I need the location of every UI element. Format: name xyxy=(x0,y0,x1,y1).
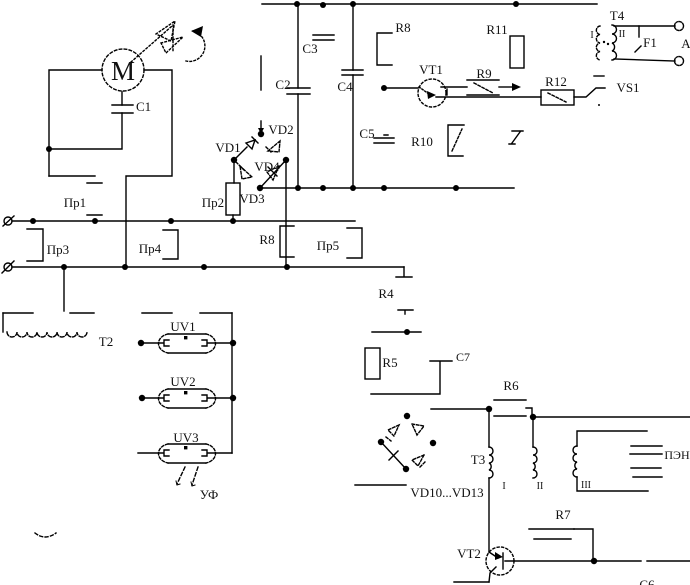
svg-text:R6: R6 xyxy=(503,378,519,393)
svg-text:I: I xyxy=(590,30,593,41)
wire stub left of bridge xyxy=(355,484,406,486)
capacitor C4 xyxy=(337,70,363,94)
svg-text:II: II xyxy=(619,29,626,40)
svg-text:T4: T4 xyxy=(610,8,625,23)
svg-text:C1: C1 xyxy=(136,99,151,114)
svg-text:UV3: UV3 xyxy=(173,430,198,445)
node bus L2 d xyxy=(284,264,290,270)
wire VT2 output xyxy=(505,560,690,562)
svg-text:ПЭН: ПЭН xyxy=(664,448,690,462)
node VT1 base wire xyxy=(381,85,387,91)
diode VD1 xyxy=(215,137,258,160)
wire bus L1 xyxy=(12,220,355,222)
wire C2 branch xyxy=(297,4,299,188)
node mid rail d xyxy=(381,185,387,191)
wire C4 branch xyxy=(352,4,354,188)
diode VD3 sketch xyxy=(236,162,252,179)
svg-text:R5: R5 xyxy=(382,355,397,370)
transistor VT2 xyxy=(457,546,514,582)
wire C1 branch xyxy=(49,92,122,149)
node bus L1 c xyxy=(168,218,174,224)
terminal T4 top xyxy=(675,22,684,31)
svg-text:VS1: VS1 xyxy=(616,80,639,95)
node rail a xyxy=(294,1,300,7)
node bus L2 a xyxy=(61,264,67,270)
wire under R4 xyxy=(372,329,421,335)
resistor R8 lower xyxy=(259,226,294,257)
symbol Z mark xyxy=(509,131,523,144)
svg-text:III: III xyxy=(581,480,591,491)
svg-text:Пр2: Пр2 xyxy=(202,195,224,210)
svg-text:VD3: VD3 xyxy=(239,191,264,206)
wire long right rail y417 xyxy=(533,416,690,418)
svg-text:F1: F1 xyxy=(643,35,657,50)
svg-text:Пр1: Пр1 xyxy=(64,195,86,210)
diode VD2 xyxy=(258,121,294,153)
node T3 primary top xyxy=(486,406,492,412)
capacitor C3 xyxy=(302,35,334,56)
wire bridge left to fuse xyxy=(233,160,235,183)
label A xyxy=(681,36,690,51)
wire bus L2 xyxy=(12,266,404,268)
node mid rail b xyxy=(320,185,326,191)
UV rays xyxy=(176,467,218,502)
svg-text:C7: C7 xyxy=(456,350,470,364)
svg-text:R7: R7 xyxy=(555,507,571,522)
svg-text:VT2: VT2 xyxy=(457,546,481,561)
svg-text:Пр5: Пр5 xyxy=(317,238,339,253)
node rail b xyxy=(320,2,326,8)
transistor VT1 xyxy=(418,62,446,107)
node VD bridge right xyxy=(283,157,289,163)
node bus L1 d xyxy=(230,218,236,224)
node mid rail e xyxy=(453,185,459,191)
label VD3 xyxy=(239,191,264,206)
terminal X2 xyxy=(2,261,14,273)
svg-text:R9: R9 xyxy=(476,66,491,81)
transformer T4 xyxy=(590,8,675,61)
capacitor C1 xyxy=(112,99,151,114)
wire to T3 node xyxy=(431,408,489,410)
node rail c xyxy=(350,1,356,7)
fuse Пр2 xyxy=(202,183,240,221)
node VT2 output xyxy=(591,558,597,564)
svg-text:T2: T2 xyxy=(99,334,113,349)
mid rail y188 xyxy=(259,187,514,189)
svg-text:C6: C6 xyxy=(639,577,655,585)
node mid rail c xyxy=(350,185,356,191)
resistor R11 xyxy=(486,22,524,68)
svg-text:VD10...VD13: VD10...VD13 xyxy=(410,485,483,500)
wire VT1 base xyxy=(384,87,418,89)
svg-text:UV2: UV2 xyxy=(170,374,195,389)
wire stub xyxy=(260,56,262,90)
resistor R7 xyxy=(529,507,593,561)
fuse Пр1 xyxy=(64,183,102,215)
svg-text:I: I xyxy=(502,481,505,492)
svg-text:C4: C4 xyxy=(337,79,353,94)
svg-text:VD4: VD4 xyxy=(254,159,280,174)
ground at bus L2 end xyxy=(396,267,412,277)
node bus L1 b xyxy=(92,218,98,224)
wire motor bottom to fuse xyxy=(49,175,95,177)
fuse F1 xyxy=(635,26,657,52)
svg-text:R12: R12 xyxy=(545,74,567,89)
transformer T3 winding III xyxy=(573,431,648,491)
wire motor right lead xyxy=(126,70,172,267)
node VD bridge left xyxy=(231,157,237,163)
svg-text:R11: R11 xyxy=(486,22,507,37)
wire VT2 emitter bottom xyxy=(454,581,489,583)
fuse Пр5 xyxy=(317,228,362,258)
top supply rail xyxy=(262,3,597,5)
transformer T2 xyxy=(3,313,113,349)
resistor R12 xyxy=(541,74,574,105)
thyristor VS1 xyxy=(574,76,640,106)
wire lamp rail top xyxy=(142,312,232,314)
fuse Пр3 xyxy=(27,229,69,261)
wire motor left lead xyxy=(49,70,102,176)
wire bus L2 to T2 xyxy=(63,267,65,311)
capacitor C6 label xyxy=(639,577,655,585)
lamp UV3 xyxy=(138,430,232,463)
node R6 right xyxy=(530,414,536,420)
svg-text:R4: R4 xyxy=(378,286,394,301)
svg-text:VT1: VT1 xyxy=(419,62,443,77)
node mid rail a xyxy=(295,185,301,191)
resistor R4 xyxy=(378,286,413,314)
wire bridge right down to bus L2 xyxy=(285,160,287,267)
resistor R10 xyxy=(411,125,464,156)
svg-text:R8: R8 xyxy=(395,20,410,35)
node bus L2 b xyxy=(122,264,128,270)
svg-text:УФ: УФ xyxy=(200,487,219,502)
svg-text:C5: C5 xyxy=(359,126,374,141)
node C1 tap xyxy=(46,146,52,152)
svg-text:VD1: VD1 xyxy=(215,140,240,155)
svg-text:C3: C3 xyxy=(302,41,317,56)
svg-text:M: M xyxy=(111,56,135,86)
resistor R9 xyxy=(467,66,499,95)
wire R9 to node with arrow xyxy=(499,83,521,91)
diode VD4 xyxy=(254,159,286,188)
rectifier bridge VD10-VD13 xyxy=(378,413,484,500)
rotation arrow symbol xyxy=(131,21,205,62)
fuse Пр4 xyxy=(139,230,178,259)
svg-text:UV1: UV1 xyxy=(170,319,195,334)
svg-text:A: A xyxy=(681,36,690,51)
svg-text:II: II xyxy=(537,481,544,492)
svg-text:Пр3: Пр3 xyxy=(47,242,69,257)
svg-text:VD2: VD2 xyxy=(268,122,293,137)
node bus L1 a xyxy=(30,218,36,224)
resistor R6 xyxy=(494,378,532,416)
node rail d xyxy=(513,1,519,7)
wire VT1 collector xyxy=(441,86,467,88)
svg-text:Пр4: Пр4 xyxy=(139,241,162,256)
terminal X1 xyxy=(3,216,14,226)
svg-text:R8: R8 xyxy=(259,232,274,247)
svg-text:R10: R10 xyxy=(411,134,433,149)
wire VT1 emitter xyxy=(436,89,541,97)
lamp UV2 xyxy=(139,374,236,408)
dashed arc mark xyxy=(35,533,56,537)
motor M1 xyxy=(102,49,144,91)
transformer T3 xyxy=(471,409,506,552)
wire lamp right rail xyxy=(231,313,233,453)
transformer T3 winding II xyxy=(533,417,543,492)
capacitor C2 xyxy=(275,77,310,94)
node bus L2 c xyxy=(201,264,207,270)
svg-text:T3: T3 xyxy=(471,452,485,467)
lamp UV1 xyxy=(138,319,236,353)
heater ПЭН xyxy=(630,446,690,477)
resistor R5 xyxy=(365,348,398,379)
node VD bridge top xyxy=(258,131,264,137)
resistor R8 upper xyxy=(377,20,411,65)
capacitor C7 xyxy=(371,350,470,394)
node VD bridge bottom xyxy=(257,185,263,191)
svg-text:C2: C2 xyxy=(275,77,290,92)
terminal T4 bottom xyxy=(675,57,684,66)
capacitor C5 xyxy=(359,126,394,143)
